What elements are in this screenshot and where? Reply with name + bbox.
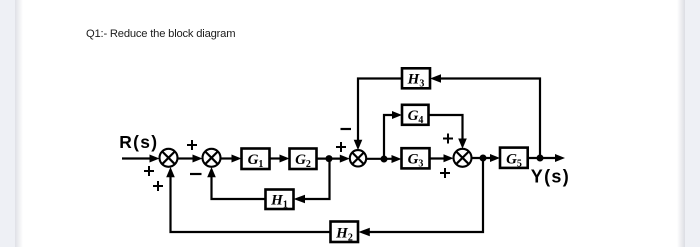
right page margin strip [677,0,685,247]
sign + at S1 left input [144,166,154,176]
summing junction S4 [454,149,472,167]
svg-text:G4: G4 [408,108,424,126]
block H3 [402,68,430,88]
node B dot after S3 [381,156,388,163]
svg-text:G5: G5 [506,151,522,169]
wire S4 to G5 [471,154,500,162]
node D dot after G5 [537,155,544,162]
svg-text:R(s): R(s) [119,132,158,152]
node A dot after G2 [326,155,333,162]
question text [86,28,235,40]
node C dot after S4 [480,155,487,162]
svg-text:Y(s): Y(s) [531,167,570,187]
wire S1 to S2 [178,155,203,163]
summing junction S1 [160,149,178,167]
block G1 [242,149,270,170]
sign + at S1 bottom input [153,181,163,191]
svg-text:G2: G2 [295,152,311,170]
wire G2 to S3 [317,155,350,163]
sign + at S4 left input [440,168,450,178]
wire H1 to S2 [207,167,265,199]
wire H2 to S1 [166,167,330,232]
left page margin strip [0,0,15,247]
block H2 [331,222,359,243]
sign + at S2 left input [187,140,197,150]
svg-text:G3: G3 [408,152,424,170]
sign - at S3 top input [341,128,352,130]
block G2 [290,149,317,170]
wire G1 to G2 [270,155,290,163]
wire tap node D up to H3 [430,74,540,158]
block G3 [402,148,430,168]
wire R(s) input [122,155,160,163]
summing junction S3 [350,150,366,166]
wire H3 to S3 top [354,79,402,151]
svg-text:H1: H1 [270,192,288,210]
wire G5 output Y(s) [528,154,566,162]
wire tap node B up to G4 [384,111,402,159]
block G5 [500,148,528,168]
summing junction S2 [203,149,221,167]
svg-text:G1: G1 [248,152,264,170]
block G4 [402,105,429,125]
wire tap node A down to H1 [294,159,330,204]
sign + at S4 top input [443,134,453,144]
wire G4 to S4 top [429,115,467,149]
wire S3 to G3 [366,155,402,163]
wire S2 to G1 [221,155,242,163]
sign - at S2 bottom input [190,173,202,175]
wire G3 to S4 [429,154,454,162]
sign + at S3 left input [336,142,346,152]
svg-text:H2: H2 [335,225,353,243]
svg-text:H3: H3 [407,72,425,90]
block H1 [266,190,294,210]
wire tap node C down to H2 [358,158,483,236]
